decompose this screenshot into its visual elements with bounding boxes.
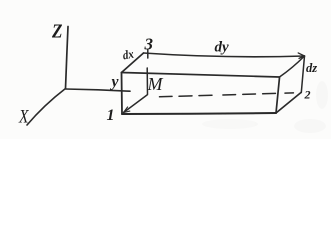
tick below 3 bbox=[147, 50, 149, 59]
svg-text:Z: Z bbox=[51, 21, 62, 43]
axis y bbox=[66, 89, 131, 91]
hidden edge M-1 with arrow to corner 1 bbox=[124, 95, 148, 113]
box front-bottom edge bbox=[122, 113, 276, 114]
paper background bbox=[0, 0, 331, 139]
box front-left edge bbox=[121, 73, 124, 115]
svg-text:y: y bbox=[110, 74, 120, 91]
box front-right edge bbox=[276, 78, 280, 114]
axis Z bbox=[66, 27, 69, 89]
box back-top edge (dy) bbox=[144, 53, 305, 57]
arrowhead at corner 1 bbox=[124, 107, 130, 113]
svg-text:1: 1 bbox=[107, 107, 115, 124]
svg-text:dy: dy bbox=[215, 40, 230, 56]
svg-text:3: 3 bbox=[144, 35, 154, 54]
arrowhead at corner dy end bbox=[298, 53, 304, 59]
box top-right diagonal bbox=[280, 56, 305, 77]
svg-text:M: M bbox=[147, 74, 164, 94]
hidden edge M-3 (vertical) bbox=[146, 68, 148, 95]
box bottom-right diagonal bbox=[276, 93, 301, 114]
box back-right edge (dz) bbox=[301, 56, 304, 93]
box edge dx (top-left diagonal) bbox=[122, 53, 144, 73]
hidden edge M-2 (dashed) bbox=[160, 93, 294, 97]
svg-text:2: 2 bbox=[304, 88, 311, 102]
box front-top edge bbox=[122, 73, 280, 78]
svg-text:dz: dz bbox=[306, 61, 317, 75]
svg-text:X: X bbox=[18, 107, 29, 128]
axis X bbox=[27, 89, 66, 126]
